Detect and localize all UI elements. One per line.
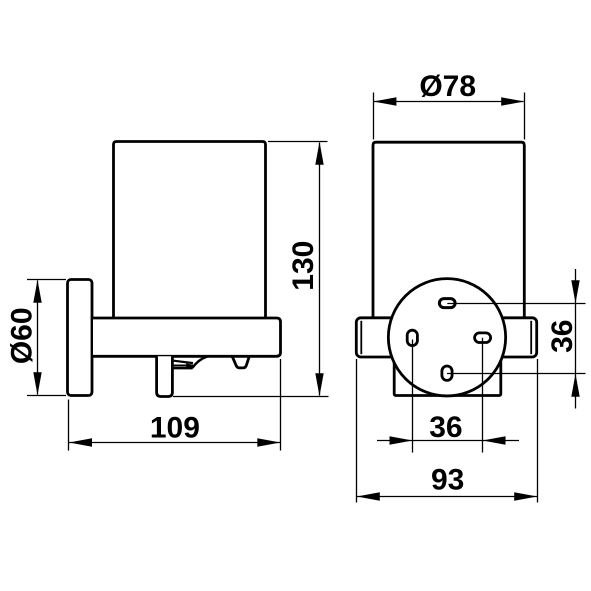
arrow dim 93 right xyxy=(514,492,537,500)
side view pump pipe xyxy=(157,356,173,396)
side view pump spout tip wedge xyxy=(187,364,194,369)
plate slot top xyxy=(439,299,455,308)
svg-text:36: 36 xyxy=(429,411,462,444)
front view cup (glass body) xyxy=(373,142,524,320)
side view pump spout lines xyxy=(174,361,194,363)
arrow dim 93 left xyxy=(357,492,380,500)
front view ring left cap inner line xyxy=(360,321,362,354)
svg-text:36: 36 xyxy=(546,320,579,353)
dim 109 line xyxy=(69,442,280,444)
dim 36 vertical leader from top slot xyxy=(447,303,585,305)
front view holder ring bar xyxy=(356,318,536,357)
dim 130 extension lines xyxy=(173,142,329,397)
dim Ø60 line xyxy=(37,281,39,395)
side view holder bar xyxy=(93,318,281,356)
arrow dim 109 left xyxy=(69,438,92,446)
dim 36 horizontal leader from right slot xyxy=(482,338,484,453)
arrow dim 130 top xyxy=(315,142,323,165)
svg-text:Ø60: Ø60 xyxy=(5,307,38,364)
dim 93 extension lines xyxy=(357,359,538,503)
side view glass clip tab xyxy=(232,356,249,368)
svg-text:93: 93 xyxy=(431,463,464,496)
dim 93 line xyxy=(357,496,537,498)
dim Ø78 extension lines xyxy=(374,93,525,140)
arrow dim 109 right xyxy=(257,438,280,446)
dim 36 vertical line xyxy=(575,269,577,409)
side view wall plate xyxy=(68,280,93,396)
plate slot right xyxy=(475,333,491,343)
dim 130 line xyxy=(319,143,321,396)
dim 36 horizontal leader from left hole xyxy=(412,340,414,453)
dim 109 extension lines xyxy=(69,359,281,451)
dim 36 vertical leader from bottom hole xyxy=(447,373,586,375)
arrow dim 36 vertical bottom outside pointing up xyxy=(571,374,579,397)
arrow dim Ø78 right xyxy=(501,97,524,105)
side view cup (glass body) xyxy=(114,142,266,321)
side view pump body curve xyxy=(192,356,207,368)
svg-text:109: 109 xyxy=(150,411,200,444)
arrow dim 36 horizontal left outside pointing right xyxy=(390,436,413,444)
front view clip housing rect xyxy=(394,357,501,396)
arrow dim Ø78 left xyxy=(373,97,396,105)
svg-text:Ø78: Ø78 xyxy=(419,70,476,103)
front view mounting plate circle xyxy=(388,279,505,396)
svg-text:130: 130 xyxy=(287,241,320,291)
dim 36 horizontal line xyxy=(377,440,519,442)
dim Ø78 line xyxy=(374,101,524,103)
dim Ø60 extension lines xyxy=(27,280,66,396)
plate hole bottom xyxy=(442,366,452,380)
arrow dim Ø60 top xyxy=(33,280,41,303)
plate hole left xyxy=(407,330,417,345)
arrow dim 36 horizontal right outside pointing left xyxy=(483,436,506,444)
arrow dim Ø60 bottom xyxy=(33,372,41,395)
front view ring right cap inner line xyxy=(530,321,532,354)
arrow dim 36 vertical top outside pointing down xyxy=(571,280,579,303)
arrow dim 130 bottom xyxy=(315,373,323,396)
